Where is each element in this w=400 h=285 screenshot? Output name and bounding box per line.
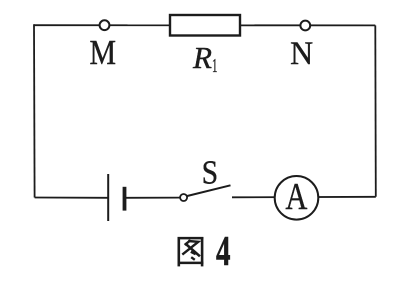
switch S lever [187, 185, 230, 196]
wire top [34, 24, 375, 26]
inner stroke: heng-pie [182, 241, 198, 255]
frame bottom [178, 262, 204, 265]
wire bottom: switch to right corner [232, 196, 376, 199]
battery short thick plate [123, 187, 127, 211]
caption 图 (drawn glyph) [178, 237, 204, 266]
terminal N [300, 21, 310, 31]
svg-text:1: 1 [212, 55, 218, 77]
frame top [178, 237, 204, 240]
resistor R1 [170, 15, 240, 36]
frame right leg [201, 237, 204, 266]
label R1 [192, 40, 218, 77]
wire right [374, 25, 377, 196]
switch S pivot [180, 194, 187, 201]
battery long plate [107, 174, 109, 221]
inner stroke: top small pie [185, 240, 191, 245]
svg-text:M: M [89, 33, 116, 72]
svg-text:R: R [192, 40, 212, 75]
svg-text:A: A [285, 176, 307, 218]
inner stroke: na [186, 244, 200, 256]
inner dot 1 [191, 252, 196, 254]
wire bottom: corner to battery [35, 197, 108, 199]
wire left [33, 24, 36, 197]
svg-text:4: 4 [216, 229, 231, 275]
ammeter A [275, 176, 319, 220]
frame left leg [178, 237, 181, 266]
wire bottom: battery to switch [126, 197, 180, 199]
inner dot 2 [191, 257, 195, 260]
svg-text:S: S [202, 154, 219, 191]
svg-text:N: N [290, 36, 313, 72]
terminal M [100, 20, 110, 30]
